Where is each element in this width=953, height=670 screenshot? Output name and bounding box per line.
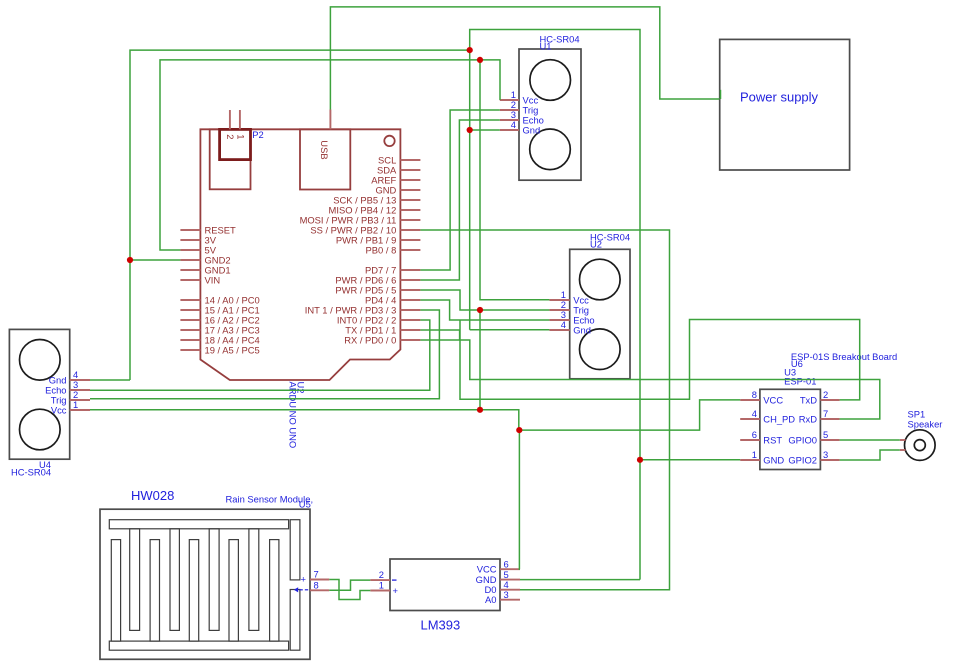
rain sensor U5 HW028 outer box — [100, 509, 310, 659]
svg-text:5: 5 — [823, 429, 828, 440]
svg-text:U5: U5 — [299, 498, 311, 509]
svg-text:1: 1 — [73, 399, 78, 410]
wire arduino TX jog to RX row — [420, 330, 459, 340]
svg-text:ARDUINO UNO: ARDUINO UNO — [288, 382, 299, 449]
svg-text:Gnd: Gnd — [523, 125, 541, 136]
junction at GND top tee — [467, 47, 473, 53]
svg-text:LM393: LM393 — [421, 618, 461, 633]
wire HW028 pin 8 crossover to LM393 minus input — [329, 580, 370, 590]
svg-text:P2: P2 — [252, 129, 263, 140]
svg-text:Speaker: Speaker — [908, 419, 943, 430]
LM393 right pin names — [476, 564, 497, 606]
HW028 pin 7 stub — [310, 579, 329, 581]
U1 pin 2 Trig stub — [500, 109, 519, 111]
arduino left pin names — [205, 224, 260, 355]
LM393 minus input marker — [392, 579, 397, 581]
U1 pin 1 Vcc stub — [500, 99, 519, 101]
svg-text:2: 2 — [379, 569, 384, 580]
arduino left pin stubs — [180, 230, 200, 350]
wire arduino INT1/PD3 to U4 Trig row — [90, 310, 439, 399]
connector P2 thick box — [220, 129, 251, 159]
wire arduino PD4 to U2b Echo row — [420, 300, 549, 320]
wire HW028 pin 7 crossover to LM393 plus input — [329, 580, 370, 600]
comparator LM393 box — [390, 559, 500, 611]
svg-text:USB: USB — [319, 140, 330, 159]
SP1 pin 1 stub — [900, 439, 906, 441]
U4 pin names — [45, 375, 67, 416]
svg-text:U2: U2 — [590, 239, 602, 250]
svg-text:6: 6 — [752, 429, 757, 440]
svg-text:1: 1 — [236, 134, 247, 139]
U2b pin names — [573, 295, 594, 336]
U2b pin 3 Echo stub — [549, 319, 569, 321]
svg-text:VCC: VCC — [477, 564, 497, 575]
U1 pin numbers — [511, 89, 516, 130]
svg-text:HC-SR04: HC-SR04 — [11, 467, 51, 478]
P2 pin 2 — [229, 110, 231, 129]
ultrasonic sensor U2b HC-SR04 box — [570, 249, 630, 378]
svg-text:2: 2 — [823, 389, 828, 400]
U1 pin 3 Echo stub — [500, 119, 519, 121]
svg-text:1: 1 — [379, 580, 384, 591]
U1 pin names — [523, 95, 544, 136]
svg-text:4: 4 — [561, 319, 566, 330]
LM393 pin 4 D0 stub — [500, 589, 520, 591]
wire U1 Trig to arduino PD7 — [420, 110, 499, 270]
U3 right pin numbers — [823, 389, 828, 460]
wire GND net: vertical A with top run to x=640 — [470, 30, 640, 580]
svg-text:ESP-01S Breakout Board: ESP-01S Breakout Board — [791, 351, 897, 362]
U3 pin 7 RxD stub — [820, 418, 839, 420]
HW028 comb bottom bar — [109, 641, 288, 650]
svg-text:Vcc: Vcc — [51, 405, 67, 416]
svg-text:Power supply: Power supply — [740, 89, 819, 104]
svg-text:3: 3 — [504, 589, 509, 600]
U3 left pin numbers — [752, 389, 757, 460]
wire GND net: U4 Gnd pin run — [90, 379, 130, 381]
LM393 left pin numbers — [379, 569, 384, 590]
wire GND net: branch to U2b Gnd pin 4 — [470, 329, 550, 331]
U3 pin 2 TxD stub — [820, 399, 839, 401]
HW028 comb right lower bar to pin 8 — [290, 590, 300, 651]
LM393 pin 1 plus stub — [370, 590, 390, 592]
svg-text:1: 1 — [752, 449, 757, 460]
U4 transducer circle bottom — [20, 409, 61, 450]
junction at VCC distribution corner — [516, 427, 522, 433]
svg-text:7: 7 — [823, 408, 828, 419]
HW028 comb teeth from bottom bar — [111, 540, 120, 642]
wire arduino PD5 jog to U2b Trig row — [420, 290, 549, 310]
U4 transducer circle top — [20, 340, 61, 381]
U2b pin 4 Gnd stub — [549, 329, 569, 331]
svg-text:4: 4 — [511, 119, 516, 130]
U2b pin 1 Vcc stub — [549, 299, 569, 301]
U3 pin 5 GPIO0 stub — [820, 439, 839, 441]
HW028 wiper arrow marker — [294, 587, 308, 592]
arduino U2 body outline — [200, 129, 400, 380]
svg-text:U1: U1 — [540, 41, 552, 52]
svg-text:VIN: VIN — [205, 274, 221, 285]
U3 pin 6 RST stub — [740, 439, 760, 441]
ultrasonic sensor U1 HC-SR04 box — [519, 49, 581, 180]
svg-text:HW028: HW028 — [131, 488, 174, 503]
arduino right pin stubs — [400, 160, 420, 340]
SP1 pin 2 stub — [900, 449, 906, 451]
wire VCC branch to ESP VCC pin 8 — [519, 400, 740, 430]
wire U4 Vcc row to riser at x=519 — [90, 410, 519, 430]
junction at ESP GND tap — [637, 457, 643, 463]
U2b pin numbers — [561, 289, 566, 330]
svg-text:GND: GND — [763, 455, 784, 466]
U3 pin 3 GPIO2 stub — [820, 459, 839, 461]
U1 pin 4 Gnd stub — [500, 129, 519, 131]
HW028 comb top bar — [109, 520, 288, 529]
U4 pin 4 Gnd stub — [70, 379, 90, 381]
U2b pin 2 Trig stub — [549, 309, 569, 311]
speaker SP1 inner circle — [914, 440, 925, 451]
wire VCC branch down to LM393 VCC pin 6 — [518, 430, 521, 569]
wire U2b Echo net riser to ESP TxD pin 2 — [460, 320, 860, 400]
svg-text:8: 8 — [752, 389, 757, 400]
svg-text:A0: A0 — [485, 594, 496, 605]
svg-text:ESP-01: ESP-01 — [784, 375, 816, 386]
wire arduino INT0/PD2 to U4 Echo row — [90, 320, 430, 390]
wire 5V net: arduino 5V riser and top run — [160, 60, 500, 250]
arduino USB shield pin — [329, 110, 331, 130]
svg-text:+: + — [301, 574, 307, 585]
svg-text:RST: RST — [763, 435, 782, 446]
svg-text:19 / A5 / PC5: 19 / A5 / PC5 — [205, 344, 260, 355]
svg-text:VCC: VCC — [763, 395, 783, 406]
svg-text:3: 3 — [823, 449, 828, 460]
wire GND net: branch to ESP GND pin 1 — [640, 459, 740, 461]
wire USB net top run — [330, 7, 719, 110]
LM393 pin 3 A0 stub — [500, 599, 520, 601]
arduino right pin names — [300, 154, 397, 345]
U2b transducer circle top — [580, 259, 621, 300]
wifi module U3 ESP-01 box — [760, 389, 821, 469]
junction at U2b Trig row riser — [477, 307, 483, 313]
svg-text:4: 4 — [752, 408, 757, 419]
svg-text:GPIO2: GPIO2 — [788, 455, 817, 466]
wire ESP GPIO0 pin 5 to speaker — [840, 439, 900, 441]
junction at U4 Vcc row riser — [477, 407, 483, 413]
U3 right pin names — [788, 395, 817, 466]
wire net riser from U2b Trig row to U4 Vcc row — [479, 310, 481, 410]
HW028 pin 8 stub — [310, 589, 329, 591]
svg-text:Gnd: Gnd — [573, 325, 591, 336]
svg-text:CH_PD: CH_PD — [763, 414, 795, 425]
svg-text:2: 2 — [225, 134, 236, 139]
svg-text:+: + — [393, 585, 399, 596]
arduino USB box — [300, 129, 350, 189]
wire GND net: GND2 pin tap — [130, 259, 180, 261]
svg-text:6: 6 — [504, 558, 509, 569]
arduino top-right circle — [384, 136, 394, 146]
svg-text:TxD: TxD — [800, 395, 817, 406]
wire ESP GPIO2 pin 3 to speaker — [840, 450, 900, 460]
U3 pin 1 GND stub — [740, 459, 760, 461]
svg-text:7: 7 — [314, 569, 319, 580]
U4 pin 3 Echo stub — [70, 389, 90, 391]
U3 left pin names — [763, 395, 795, 466]
LM393 pin 5 GND stub — [500, 579, 520, 581]
speaker SP1 outer circle — [905, 430, 936, 461]
junction at 5V top tee — [477, 57, 483, 63]
LM393 pin 2 minus stub — [370, 579, 390, 581]
HW028 comb teeth from top bar — [130, 529, 140, 631]
wire GND net: U1 Gnd pin tap — [470, 129, 500, 131]
wire arduino RX to ESP RxD pin 7 — [420, 340, 879, 419]
U4 pin numbers — [73, 369, 78, 410]
wire GND net: to LM393 GND pin 5 — [520, 579, 640, 581]
svg-text:RX / PD0 / 0: RX / PD0 / 0 — [344, 334, 396, 345]
wire GND net: arduino GND2 branch with left riser — [130, 50, 470, 380]
svg-text:8: 8 — [314, 579, 319, 590]
junction at arduino GND2 tap — [127, 257, 133, 263]
U4 pin 1 Vcc stub — [70, 409, 90, 411]
LM393 pin 6 VCC stub — [500, 568, 520, 570]
wire arduino pin 10 to LM393 D0 pin 4 — [420, 230, 669, 590]
U1 transducer circle top — [530, 60, 571, 101]
ultrasonic sensor U4 HC-SR04 box — [9, 329, 69, 459]
U2b transducer circle bottom — [580, 329, 621, 370]
svg-text:PB0 / 8: PB0 / 8 — [366, 244, 397, 255]
U4 pin 2 Trig stub — [70, 399, 90, 401]
svg-text:RxD: RxD — [799, 414, 817, 425]
wire U1 Echo to arduino PD6 — [420, 120, 499, 280]
HW028 comb right upper bar to pin 7 — [290, 520, 300, 580]
arduino inner connector box — [210, 129, 251, 189]
U3 pin 8 VCC stub — [740, 399, 760, 401]
P2 pin 1 — [239, 110, 241, 129]
svg-text:GPIO0: GPIO0 — [788, 435, 817, 446]
U3 pin 4 CH_PD stub — [740, 418, 760, 420]
LM393 right pin numbers — [504, 558, 509, 600]
U1 transducer circle bottom — [530, 129, 571, 170]
power supply pin (green) — [720, 90, 722, 99]
wire 5V net: branch down to U2b Vcc pin 1 — [480, 60, 549, 300]
power supply box — [720, 39, 850, 170]
junction at U1 Gnd tap — [467, 127, 473, 133]
